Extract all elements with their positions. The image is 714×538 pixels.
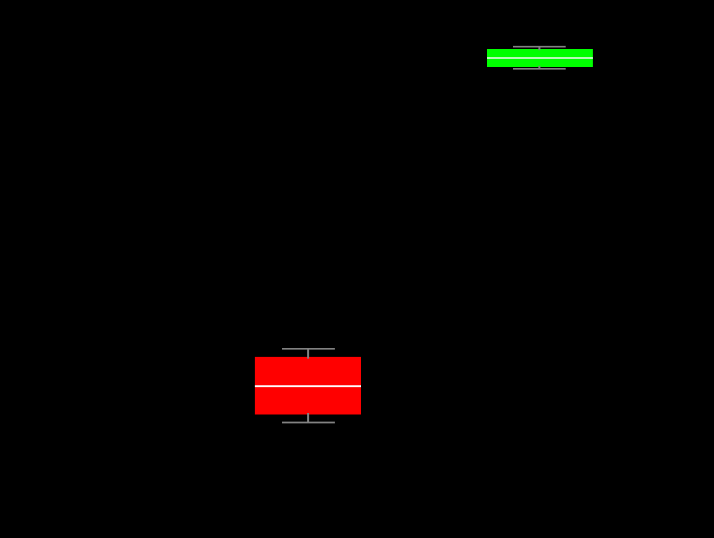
green boxplot: median line xyxy=(487,57,593,59)
green boxplot: lower whisker stem xyxy=(538,66,540,69)
red boxplot: upper whisker stem xyxy=(307,349,309,359)
green boxplot: upper whisker cap xyxy=(513,46,566,48)
green boxplot: lower whisker cap xyxy=(513,68,566,70)
green boxplot: upper whisker stem xyxy=(538,47,540,51)
red boxplot: box xyxy=(255,357,361,415)
red boxplot: median line xyxy=(255,385,361,387)
red boxplot: upper whisker cap xyxy=(282,348,335,350)
green boxplot: box xyxy=(487,49,593,67)
red boxplot: lower whisker cap xyxy=(282,422,335,424)
red boxplot: lower whisker stem xyxy=(307,413,309,423)
